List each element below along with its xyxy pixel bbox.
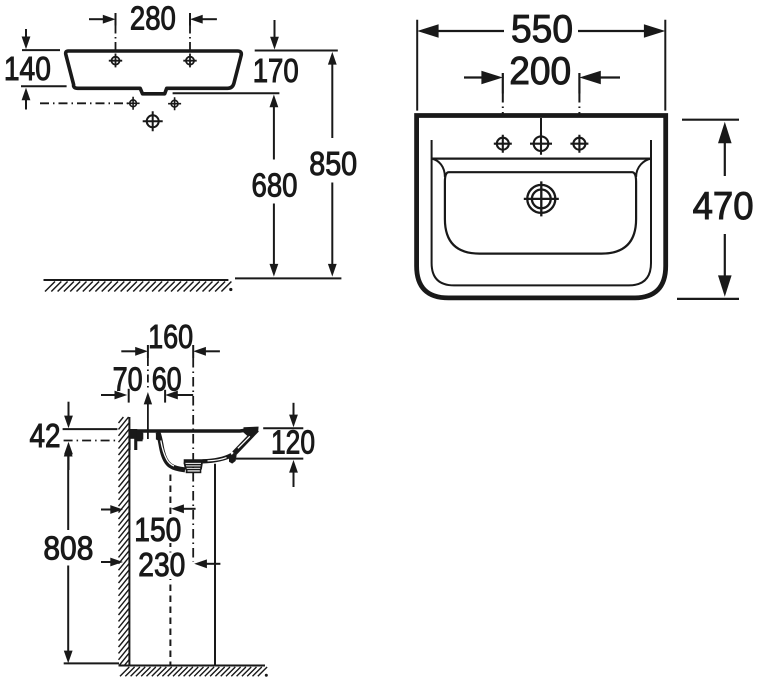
floor line	[119, 665, 266, 667]
svg-text:808: 808	[43, 529, 93, 566]
wire: 470 bottom extension line	[677, 298, 739, 300]
wire: 140 bottom extension line	[21, 85, 67, 87]
dim 850 vertical line	[331, 63, 333, 138]
tap hole right (crosshair)	[570, 135, 588, 153]
drain body R2	[186, 469, 202, 473]
middle tap solid axis	[540, 118, 542, 135]
dim 230 arrow (to wall)	[101, 561, 111, 563]
wire: dash-dot tap axis (upper)	[147, 358, 149, 389]
white sliver in front edge	[238, 436, 250, 448]
drain mark (crosshair)	[143, 111, 163, 131]
bowl bottom / underside right band	[203, 455, 232, 461]
svg-text:42: 42	[30, 417, 61, 454]
wall face line	[128, 417, 130, 666]
dim 808 vertical line	[67, 456, 69, 530]
label 230 white backing	[135, 553, 189, 580]
tap hole wall lines	[143, 433, 157, 440]
bowl-deck blend right	[636, 159, 651, 177]
tick 160 right	[192, 345, 194, 358]
tick 200 right	[578, 73, 580, 94]
dim 160 left arrow	[121, 350, 136, 352]
front edge tip fill	[243, 427, 258, 439]
arrowhead 550 right	[644, 24, 665, 38]
arrow 120 up	[293, 471, 295, 487]
basin outer outline (plan)	[417, 116, 666, 298]
svg-text:470: 470	[693, 185, 754, 228]
back rim bar at wall	[129, 429, 138, 450]
arrow 170 down	[274, 20, 276, 40]
svg-text:150: 150	[134, 511, 181, 548]
wire: 120 top extension line	[263, 427, 303, 429]
front edge band	[234, 430, 257, 454]
tap hole left (crosshair)	[494, 135, 512, 153]
ground dot	[229, 288, 232, 291]
ground hatching	[45, 282, 231, 292]
wire: 170/680 bottom extension line	[173, 92, 280, 94]
arrow 42 up	[68, 452, 70, 470]
wire: 170 top extension line	[255, 50, 338, 52]
fixing hole mark B (crosshair)	[168, 97, 181, 110]
dim 230 arrow (to drain axis)	[206, 563, 220, 565]
wire: floor extension line for dims	[235, 277, 341, 279]
deck material left of tap hole	[137, 431, 143, 442]
arrow 850 down	[328, 264, 337, 277]
tap fixing mark left (crosshair)	[109, 54, 122, 67]
wire: trap pipe line	[214, 464, 216, 665]
wall hatching	[119, 417, 130, 666]
wire: 280 dim line right	[202, 18, 217, 20]
rim top line	[129, 429, 258, 431]
wire: dash-dot from 200 dim to right tap	[578, 94, 580, 135]
arrowhead 280 right	[190, 15, 203, 24]
drain ring lines	[184, 465, 202, 468]
tick 280 left	[115, 13, 117, 26]
arrow 680 up	[270, 95, 279, 108]
dim 470 vertical line	[724, 138, 726, 176]
wire: 808 bottom extension line	[64, 662, 119, 664]
svg-text:160: 160	[148, 318, 193, 355]
arrow 470 up	[718, 122, 732, 143]
dim 70 left arrow	[101, 394, 116, 396]
svg-text:170: 170	[253, 52, 299, 89]
floor line (hatched ground)	[44, 279, 229, 281]
dim 150 arrow (to wall)	[101, 509, 111, 511]
wire: dash-dot drain axis	[192, 358, 194, 562]
arrow 470 down	[718, 275, 732, 296]
arrow 42 down	[68, 402, 70, 419]
wire: dash-dot axis through fixing holes	[40, 102, 128, 104]
svg-text:550: 550	[511, 8, 573, 51]
svg-text:850: 850	[309, 145, 357, 182]
front bottom corner knuckle	[229, 453, 237, 464]
dim 200 left arrow	[464, 76, 486, 78]
arrow 808 down	[64, 651, 73, 664]
wire: dash-dot down to left tap mark	[115, 26, 117, 55]
svg-text:140: 140	[4, 50, 51, 87]
arrow up at tap axis (70/60 common)	[147, 404, 149, 439]
bowl outline	[445, 172, 636, 253]
arrowhead 280 left	[103, 15, 116, 24]
bowl back wall band	[158, 433, 185, 470]
wire: 550 right extension line	[664, 20, 666, 111]
tick 280 right	[189, 13, 191, 26]
wire: 42 top extension line	[63, 428, 118, 430]
fixing hole mark A (crosshair)	[127, 97, 140, 110]
bowl-deck blend left	[432, 159, 445, 177]
deck material right of tap hole	[157, 431, 160, 441]
wire: hidden drain line (dashed)	[169, 475, 171, 666]
arrowhead 550 left	[417, 24, 438, 38]
wire: 280 dim line left	[89, 18, 104, 20]
svg-text:280: 280	[130, 0, 176, 37]
dim 200 right arrow	[597, 76, 620, 78]
tap fixing mark right (crosshair)	[183, 54, 196, 67]
arrow 808 up	[64, 444, 73, 457]
tick at wall face	[128, 389, 130, 403]
fixing slot (white) in rim bar	[131, 439, 135, 450]
arrow 120 down	[293, 403, 295, 417]
drain step R1	[184, 459, 203, 463]
wire: 140 top extension line	[22, 49, 60, 51]
tick 200 left	[502, 73, 504, 94]
dim 150 arrow (to dashed line)	[183, 508, 196, 510]
drain side connectors	[184, 463, 202, 470]
white dash in right band	[208, 458, 227, 461]
dim 60 right arrow	[177, 394, 193, 396]
tick 160 left	[147, 345, 149, 358]
wire: 470 top extension line	[682, 119, 739, 121]
dim 550 line	[436, 30, 504, 32]
wire: 550 left extension line	[416, 20, 418, 111]
white sliver in back wall	[161, 441, 174, 467]
svg-text:200: 200	[509, 50, 571, 93]
arrow 850 up	[328, 52, 337, 65]
arrow 680 down	[270, 264, 279, 277]
arrow 140 down	[25, 29, 27, 40]
svg-text:230: 230	[138, 546, 185, 583]
wire: 120 bottom extension line	[236, 458, 303, 460]
dim 160 right arrow	[205, 350, 220, 352]
white sliver in drain body	[188, 470, 200, 472]
basin outline (front elevation)	[66, 51, 242, 94]
arrow 140 up	[25, 99, 27, 110]
deck front edge line	[432, 158, 651, 160]
tick 60 right	[164, 390, 166, 403]
floor dot	[265, 674, 268, 677]
wire: dash-dot down to right tap mark	[189, 26, 191, 55]
svg-text:680: 680	[252, 167, 298, 204]
dim 680 vertical line	[273, 105, 275, 160]
label 150 white backing	[131, 515, 185, 544]
inner rim line	[432, 140, 651, 285]
drain (double-circle crosshair)	[524, 181, 559, 216]
tap hole middle (crosshair)	[530, 133, 552, 155]
floor hatching	[120, 667, 267, 676]
wire: dash-dot from 200 dim to left tap	[502, 94, 504, 135]
wire: 42 dash-dot axis	[64, 440, 118, 442]
